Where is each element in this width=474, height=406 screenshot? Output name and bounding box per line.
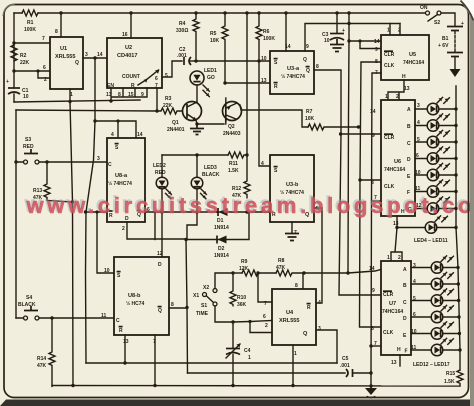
svg-text:R6: R6 xyxy=(263,29,270,35)
svg-text:C: C xyxy=(407,141,411,147)
transistor Q1 2N4401 xyxy=(167,85,202,133)
svg-text:R8: R8 xyxy=(278,258,285,264)
svg-text:R15: R15 xyxy=(446,371,455,377)
LED LED12 row A xyxy=(411,256,458,273)
svg-text:D: D xyxy=(407,157,411,163)
resistor R3 xyxy=(157,96,184,114)
svg-text:U1: U1 xyxy=(60,46,67,52)
svg-text:U4: U4 xyxy=(286,310,294,316)
node x349 pin14 wire xyxy=(347,39,350,42)
svg-text:H: H xyxy=(402,74,406,80)
svg-text:8: 8 xyxy=(171,302,174,308)
wire left rail from R1 down to C1 xyxy=(13,13,15,88)
svg-text:11: 11 xyxy=(101,313,107,319)
svg-text:9: 9 xyxy=(372,288,375,294)
wire U5 pins1,2 stubs xyxy=(390,24,400,36)
svg-text:14: 14 xyxy=(370,109,376,115)
wire +V drop to U5 row x349 xyxy=(348,13,349,273)
node LED3 bottom join xyxy=(195,210,198,213)
node R10 top xyxy=(231,271,234,274)
wire U5 pin8 CLK bus xyxy=(360,62,382,327)
wire U2 pin5 out to C2 xyxy=(162,61,182,77)
wire U5 pin14 xyxy=(349,40,381,42)
resistor R10 xyxy=(230,273,247,308)
node pin14 rail xyxy=(284,11,287,14)
node R11/R12 junction xyxy=(245,153,248,156)
node Qbar junction xyxy=(185,306,188,309)
node rail row C xyxy=(454,140,457,143)
node R8/pin8 junction xyxy=(302,271,305,274)
wire U4 pin7 jog xyxy=(258,273,272,302)
wire bottom ground rail xyxy=(52,385,460,388)
svg-text:.001: .001 xyxy=(340,363,350,369)
capacitor C3 xyxy=(322,13,345,52)
svg-text:1: 1 xyxy=(248,355,251,361)
wire U3-a pin14 stub xyxy=(285,13,287,51)
svg-text:.001: .001 xyxy=(177,53,187,59)
node rail U7 row A xyxy=(456,266,459,269)
wire C1 bottom to U2 ground row xyxy=(14,100,140,102)
svg-text:12K: 12K xyxy=(239,266,249,272)
IC U3-b 74HC74 xyxy=(261,155,319,236)
svg-text:14: 14 xyxy=(97,52,103,58)
svg-text:S1: S1 xyxy=(201,303,207,309)
LED LED8 row E xyxy=(415,163,456,180)
svg-text:S3: S3 xyxy=(25,137,31,143)
svg-text:1: 1 xyxy=(385,94,388,100)
node C3 rail xyxy=(335,11,338,14)
IC U5 74HC164 xyxy=(374,28,429,81)
wire R5 leg into Q2 base bar xyxy=(225,98,227,124)
capacitor C1 xyxy=(6,79,29,102)
svg-text:2: 2 xyxy=(396,94,399,100)
svg-text:5: 5 xyxy=(165,73,168,79)
svg-text:10: 10 xyxy=(23,94,29,100)
node R4/C2 junction xyxy=(194,59,197,62)
svg-text:9: 9 xyxy=(306,44,309,50)
node net-B R13 join xyxy=(71,200,74,203)
IC U6 74HC164 xyxy=(370,86,422,227)
wire U7 pin13 stub xyxy=(399,355,401,366)
diode D2 1N914 xyxy=(186,213,249,259)
wire U3-a pin8 Qbar down CLR bus xyxy=(314,70,381,295)
svg-text:13: 13 xyxy=(123,339,129,345)
node CLR bus U6 pin9 xyxy=(339,132,342,135)
svg-text:8: 8 xyxy=(316,64,319,70)
ground U3-b pin7 xyxy=(285,234,299,241)
svg-text:9: 9 xyxy=(375,47,378,53)
svg-text:1N914: 1N914 xyxy=(214,225,229,231)
svg-text:74HC164: 74HC164 xyxy=(384,167,405,173)
capacitor C2 xyxy=(177,47,196,65)
svg-text:R: R xyxy=(119,328,123,334)
node rail U7 row C xyxy=(457,299,460,302)
resistor R15 xyxy=(444,370,463,386)
svg-text:B: B xyxy=(403,283,407,289)
svg-text:U5: U5 xyxy=(409,52,416,58)
wire S1 common down xyxy=(215,306,233,322)
svg-text:XRL555: XRL555 xyxy=(55,54,76,60)
node H branch to U7 xyxy=(395,226,398,229)
node U2 gnd stub xyxy=(109,99,112,102)
node U1 pin1 xyxy=(68,100,71,103)
svg-text:9: 9 xyxy=(372,133,375,139)
svg-text:3: 3 xyxy=(417,103,420,109)
svg-text:10: 10 xyxy=(104,268,110,274)
svg-text:C: C xyxy=(403,300,407,306)
svg-text:10: 10 xyxy=(324,38,330,44)
svg-text:½ 74HC74: ½ 74HC74 xyxy=(281,73,305,80)
svg-text:3: 3 xyxy=(318,326,321,332)
svg-text:U8-a: U8-a xyxy=(115,173,128,179)
wire C2 to U3-a pin10 xyxy=(196,60,270,62)
wire drop x155 to pin2 run xyxy=(154,212,156,240)
svg-text:47K: 47K xyxy=(276,265,286,271)
svg-text:10: 10 xyxy=(261,56,267,62)
node rail U7 row E xyxy=(458,332,461,335)
IC U2 CD4017 xyxy=(97,32,168,98)
wire U4 pin8 stub xyxy=(302,273,304,289)
wire R9 to R8 xyxy=(258,272,276,274)
svg-text:A: A xyxy=(403,267,407,273)
wire timing run to U7 pin14 xyxy=(304,270,381,274)
svg-text:12: 12 xyxy=(157,251,163,257)
svg-text:100K: 100K xyxy=(24,27,36,33)
wire U7 pin7 stub xyxy=(371,345,381,347)
svg-text:X1: X1 xyxy=(193,293,199,299)
svg-text:Q: Q xyxy=(303,331,308,337)
resistor R7 xyxy=(305,109,358,130)
LED LED11 row H xyxy=(425,216,456,233)
LED LED7 row D xyxy=(415,147,456,164)
svg-text:Q: Q xyxy=(306,68,310,74)
resistor R11 xyxy=(228,152,247,174)
svg-text:3: 3 xyxy=(85,52,88,58)
node R12 bottom D1 wire xyxy=(245,210,248,213)
node LED2 bottom join xyxy=(160,210,163,213)
svg-text:14: 14 xyxy=(137,132,143,138)
node rail row B xyxy=(454,124,457,127)
svg-text:CLR: CLR xyxy=(384,135,395,141)
svg-text:10K: 10K xyxy=(210,38,220,44)
node rail U7 row B xyxy=(457,282,460,285)
svg-text:330Ω: 330Ω xyxy=(176,28,188,34)
svg-text:U8-b: U8-b xyxy=(128,293,141,299)
ground main at gnd bus xyxy=(365,388,377,395)
LED LED13 row B xyxy=(411,272,458,289)
wire LED feed rail y155 xyxy=(162,154,228,156)
svg-text:14: 14 xyxy=(374,39,380,45)
svg-text:C: C xyxy=(108,162,112,168)
resistor R13 xyxy=(33,162,73,202)
svg-text:7: 7 xyxy=(374,341,377,347)
LED LED6 row C xyxy=(415,130,456,147)
wire R2 to U1 pin6 xyxy=(14,70,50,72)
svg-text:8: 8 xyxy=(55,29,58,35)
wire U5 pin9 jog xyxy=(360,41,381,49)
wire U8-a pin6 Qbar out xyxy=(145,211,217,213)
wire U5 pin7 GND bus xyxy=(371,73,381,389)
IC U8-b 74HC74 xyxy=(101,251,174,345)
wire U4 pin1 to bottom rail xyxy=(292,345,294,386)
resistor R5 xyxy=(210,13,228,82)
svg-text:4: 4 xyxy=(261,161,264,167)
node x247 rail xyxy=(245,11,248,14)
node rail row D xyxy=(454,157,457,160)
svg-text:CD4017: CD4017 xyxy=(117,53,138,59)
node x349 rail xyxy=(347,11,350,14)
svg-text:C4: C4 xyxy=(244,348,251,354)
wire U3-b Q pin5 down to U4 pin4 xyxy=(314,208,322,303)
wire feedback run y363 xyxy=(86,362,337,364)
capacitor C5 xyxy=(340,356,353,377)
node rail row F xyxy=(454,190,457,193)
wire U3-b pin7 ground stub xyxy=(291,222,293,233)
svg-text:+ 6V: + 6V xyxy=(438,43,449,49)
node D2/U8-a pin2 junction xyxy=(184,238,187,241)
wire U4 pin2 jog xyxy=(250,322,272,333)
svg-text:C5: C5 xyxy=(342,356,349,362)
node Q1 emitter xyxy=(195,122,198,125)
svg-text:7: 7 xyxy=(264,301,267,307)
wire LED cathode rail right xyxy=(456,86,460,370)
battery B1 xyxy=(438,21,464,77)
resistor R6 xyxy=(256,13,275,42)
LED LED15 row D xyxy=(411,305,458,322)
node C5/gnd bus xyxy=(369,371,372,374)
LED LED17 row F xyxy=(411,338,458,355)
svg-text:CLK: CLK xyxy=(384,63,395,69)
capacitor C4 variable xyxy=(226,322,251,386)
node rail U7 row F xyxy=(458,348,461,351)
wire U8-b pin13 stub xyxy=(124,335,126,363)
wire R6 down to U3-b pin4 xyxy=(259,40,270,166)
node x349 serial wire xyxy=(347,22,350,25)
node Q branch xyxy=(93,56,96,59)
svg-text:R2: R2 xyxy=(20,53,27,59)
svg-text:6: 6 xyxy=(155,76,158,82)
svg-text:B: B xyxy=(407,124,411,130)
svg-text:X2: X2 xyxy=(203,285,209,291)
wire pin6/2 feed xyxy=(233,321,272,323)
svg-text:4: 4 xyxy=(111,132,114,138)
svg-text:2N4403: 2N4403 xyxy=(223,131,241,137)
op IC U1 XRL555 xyxy=(42,29,88,98)
node R3 tap xyxy=(155,109,158,112)
wire H cascade to U7 pins1,2 xyxy=(391,228,402,262)
svg-text:LED4 – LED11: LED4 – LED11 xyxy=(414,238,448,244)
svg-text:U3-b: U3-b xyxy=(286,182,299,188)
LED LED5 row B xyxy=(415,114,456,131)
IC U3-a 74HC74 xyxy=(261,44,319,94)
svg-text:2: 2 xyxy=(122,226,125,232)
resistor R1 xyxy=(22,10,38,33)
svg-text:1.5K: 1.5K xyxy=(228,168,239,174)
wire U2 pin16 stub xyxy=(130,13,132,38)
svg-text:1N914: 1N914 xyxy=(214,253,229,259)
svg-text:COUNT: COUNT xyxy=(122,74,140,80)
svg-text:½ HC74: ½ HC74 xyxy=(126,300,145,307)
switch S4 BLACK pushbutton xyxy=(18,295,39,320)
svg-text:Q: Q xyxy=(75,60,79,66)
ground below Q1 xyxy=(190,124,204,135)
wire Qbar net down to C5 run xyxy=(186,240,188,374)
IC U4 XRL555 xyxy=(263,283,321,357)
svg-text:13: 13 xyxy=(404,86,410,92)
svg-text:1: 1 xyxy=(387,28,390,34)
node pin1 rail xyxy=(291,384,294,387)
svg-text:8: 8 xyxy=(295,283,298,289)
svg-text:CLR: CLR xyxy=(384,52,395,58)
svg-text:100K: 100K xyxy=(263,36,275,42)
svg-text:D: D xyxy=(403,316,407,322)
svg-text:A: A xyxy=(407,107,411,113)
node pin6 branch xyxy=(36,69,39,72)
svg-text:½ 74HC74: ½ 74HC74 xyxy=(108,180,132,187)
wire U8-a pin2 xyxy=(127,222,186,239)
svg-text:www.circuitsstream.blogspot.co: www.circuitsstream.blogspot.com xyxy=(26,193,474,218)
svg-text:Q2: Q2 xyxy=(228,124,235,130)
wire S4 to U8-b pin11 xyxy=(16,317,114,319)
node net-B rail xyxy=(71,384,74,387)
svg-text:LED3: LED3 xyxy=(204,165,217,171)
LED LED9 row F xyxy=(415,180,456,197)
node pin7 to bottom rail xyxy=(153,384,156,387)
watermark www.circuitsstream.blogspot.com xyxy=(24,192,474,219)
svg-text:R4: R4 xyxy=(179,21,186,27)
svg-text:U7: U7 xyxy=(389,301,396,307)
node rail row A xyxy=(454,107,457,110)
LED LED14 row C xyxy=(411,289,458,306)
svg-text:13: 13 xyxy=(261,78,267,84)
switch S2 ON xyxy=(420,5,441,26)
svg-text:R7: R7 xyxy=(306,109,313,115)
LED LED10 row G xyxy=(415,197,456,214)
wire U8-a Rbar wire xyxy=(86,211,108,213)
svg-text:8: 8 xyxy=(371,180,374,186)
svg-text:1: 1 xyxy=(387,255,390,261)
wire U8-a Qbar to U8-b D pin12 xyxy=(161,212,163,257)
svg-text:1: 1 xyxy=(294,351,297,357)
node pin4 stub xyxy=(116,119,119,122)
svg-text:BLACK: BLACK xyxy=(18,302,36,308)
svg-text:S2: S2 xyxy=(434,20,440,26)
svg-text:7: 7 xyxy=(42,36,45,42)
svg-text:Q1: Q1 xyxy=(172,120,179,126)
svg-text:RED: RED xyxy=(155,170,166,176)
resistor R8 xyxy=(276,258,304,276)
svg-text:8: 8 xyxy=(371,326,374,332)
svg-text:Q: Q xyxy=(158,308,162,314)
svg-text:D: D xyxy=(158,262,162,268)
node R13 tap xyxy=(45,160,48,163)
svg-text:R: R xyxy=(274,84,278,90)
node net-A top of drop xyxy=(93,119,96,122)
wire U8-b pin7 stub xyxy=(154,335,156,386)
IC U7 74HC164 xyxy=(369,255,417,366)
svg-text:13: 13 xyxy=(391,360,397,366)
wire U2 bottom pins stubs xyxy=(111,88,147,101)
wire U4 Q out to feedback run xyxy=(316,330,337,363)
wire U8-b pin8 Qbar out xyxy=(169,307,187,309)
wire Q2 emitter to R7 xyxy=(240,105,308,127)
svg-text:XRL555: XRL555 xyxy=(279,318,300,324)
svg-text:H: H xyxy=(397,347,401,353)
svg-text:TIME: TIME xyxy=(196,311,209,317)
svg-text:S4: S4 xyxy=(26,295,32,301)
LED LED3 BLACK xyxy=(191,155,220,212)
diode D1 1N914 xyxy=(214,208,247,231)
node pin16 rail xyxy=(129,11,132,14)
wire S2 to battery xyxy=(441,13,455,26)
svg-text:C: C xyxy=(116,318,120,324)
svg-text:74HC164: 74HC164 xyxy=(403,60,424,66)
node gnd bus rail xyxy=(369,384,372,387)
svg-text:2: 2 xyxy=(265,323,268,329)
resistor R14 xyxy=(37,318,55,386)
wire timing top run R9 R8 xyxy=(233,272,242,274)
svg-text:BLACK: BLACK xyxy=(202,172,220,178)
wire net-A from U1 Q down the page xyxy=(86,58,96,363)
switch S3 RED pushbutton xyxy=(23,137,39,164)
svg-text:74HC164: 74HC164 xyxy=(382,309,403,315)
node LED3 top xyxy=(195,153,198,156)
node R5 to pin13 wire xyxy=(223,81,226,84)
svg-text:R5: R5 xyxy=(210,31,217,37)
svg-text:RED: RED xyxy=(23,144,34,150)
wire U6 pin8 stub xyxy=(360,179,381,181)
wire net-B U1 pin1/C1 ground run xyxy=(70,102,73,386)
node U5 pin9 branch xyxy=(358,39,361,42)
svg-text:+: + xyxy=(6,79,9,85)
LED LED2 RED xyxy=(153,155,171,212)
svg-text:U3-a: U3-a xyxy=(287,66,300,72)
svg-text:B1: B1 xyxy=(442,36,449,42)
svg-text:F: F xyxy=(405,349,408,355)
svg-text:R3: R3 xyxy=(165,96,172,102)
svg-text:LED1: LED1 xyxy=(204,68,217,74)
node V2 join xyxy=(346,271,349,274)
resistor R9 xyxy=(239,259,258,276)
node R14 tap xyxy=(50,316,53,319)
LED LED1 xyxy=(190,68,217,97)
node S3 tap xyxy=(14,160,17,163)
node net-A Rbar xyxy=(84,210,87,213)
resistor R4 xyxy=(176,13,199,59)
svg-text:CLR: CLR xyxy=(383,292,394,298)
node R2/C1 junction xyxy=(12,69,15,72)
svg-text:47K: 47K xyxy=(37,363,47,369)
wire U1 pin1 stub xyxy=(69,89,71,102)
LED LED16 row E xyxy=(411,322,458,339)
wire U1 pin7 xyxy=(14,42,50,44)
svg-text:36K: 36K xyxy=(237,302,247,308)
IC U8-a 74HC74 xyxy=(97,132,150,232)
svg-text:R14: R14 xyxy=(37,356,46,362)
wire top +V rail xyxy=(14,12,426,14)
svg-text:2: 2 xyxy=(398,28,401,34)
resistor R12 xyxy=(232,155,250,199)
wire X2 up to timing wire xyxy=(215,273,233,289)
node R5 rail xyxy=(223,11,226,14)
node C4 rail xyxy=(231,384,234,387)
svg-text:1.5K: 1.5K xyxy=(444,379,455,385)
svg-text:CLK: CLK xyxy=(384,184,395,190)
wire U6 pin9 stub xyxy=(341,133,381,135)
wire Q1 emitter to Q2 base xyxy=(197,123,224,125)
svg-text:R10: R10 xyxy=(237,295,246,301)
svg-text:U2: U2 xyxy=(125,45,132,51)
